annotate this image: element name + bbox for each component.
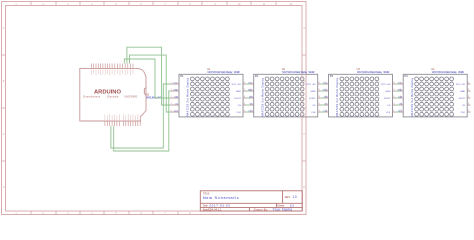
svg-text:C: C — [303, 133, 305, 136]
svg-text:VCC +5V: VCC +5V — [306, 84, 316, 86]
svg-text:CS: CS — [462, 105, 466, 107]
svg-text:CS: CS — [387, 105, 391, 107]
svg-text:Your Name: Your Name — [273, 207, 293, 211]
title block value New Schematic — [203, 195, 239, 200]
svg-text:REV:: REV: — [285, 195, 291, 199]
svg-text:GND: GND — [385, 91, 390, 93]
U2 left pins — [250, 84, 254, 112]
LED matrix module U1 body — [179, 74, 243, 117]
title block label EasyEDA V4.1.1 — [203, 207, 222, 211]
U1 LED dot grid 8x8 — [191, 77, 230, 116]
svg-text:4: 4 — [325, 103, 326, 105]
arduino ARDUINO title text — [94, 89, 121, 95]
svg-text:VCC +5V: VCC +5V — [383, 71, 390, 74]
U2 left pin numbers — [250, 82, 251, 112]
U2 right pin numbers — [319, 82, 321, 112]
svg-text:DOUT: DOUT — [309, 98, 316, 100]
frame row letters left — [3, 27, 5, 189]
U2 left pin name labels — [248, 82, 253, 112]
svg-text:EasyEDA V4.1.1: EasyEDA V4.1.1 — [203, 207, 222, 211]
svg-text:5: 5 — [250, 110, 251, 112]
U3 left pins — [325, 84, 329, 112]
LED matrix module U2 body — [254, 74, 318, 117]
svg-text:VCC +5V: VCC +5V — [456, 84, 466, 86]
frame tick marks right — [302, 55, 306, 161]
svg-text:UNO R3/R2: UNO R3/R2 — [125, 96, 138, 99]
svg-text:CLK: CLK — [174, 110, 179, 112]
title block value 1/1 — [290, 204, 295, 208]
svg-text:MAX7219 Dot Matrix Display: MAX7219 Dot Matrix Display — [432, 71, 458, 74]
svg-text:GND: GND — [460, 91, 465, 93]
svg-text:2: 2 — [325, 89, 326, 91]
U3 vertical name stripe — [336, 77, 339, 116]
U1 corner designator P1 — [180, 74, 184, 78]
svg-text:1: 1 — [250, 82, 251, 84]
svg-text:2017-03-03: 2017-03-03 — [209, 204, 230, 208]
U1 right pins — [243, 84, 246, 112]
U1 right pin name labels — [232, 84, 242, 114]
title block label TITLE — [203, 192, 211, 195]
wire bus from U2 to U3 — [321, 84, 326, 112]
svg-text:CLK: CLK — [311, 112, 316, 114]
wire GND from arduino GND to U1 — [114, 91, 171, 151]
U4 right pin numbers — [468, 82, 470, 112]
U3 left pin name labels — [323, 82, 328, 112]
svg-text:CLK: CLK — [386, 112, 391, 114]
U4 left pin name labels — [397, 82, 402, 112]
title block value 2017-03-03 — [209, 204, 230, 208]
arduino right edge connector notch — [144, 88, 146, 96]
U4 designator label — [431, 67, 435, 71]
LED matrix module U3 body — [329, 74, 393, 117]
arduino designator U5 — [146, 93, 150, 96]
svg-text:Date:: Date: — [203, 205, 209, 208]
svg-text:Duemilanove: Duemilanove — [83, 96, 101, 99]
svg-text:VCC +5V: VCC +5V — [381, 84, 391, 86]
svg-text:4: 4 — [171, 103, 172, 105]
U3 LED dot grid 8x8 — [340, 77, 379, 116]
wire CS from arduino D10 to U1 — [127, 47, 171, 105]
U4 LED dot grid 8x8 — [415, 77, 454, 116]
svg-text:P4: P4 — [404, 74, 408, 78]
svg-text:5: 5 — [171, 110, 172, 112]
U1 left pin name labels — [173, 82, 178, 112]
arduino bottom pin header right (analog pins) — [123, 121, 140, 126]
svg-text:CLK: CLK — [237, 112, 242, 114]
frame right border overlay over module U2 — [302, 74, 306, 118]
arduino bottom pin header left pin name labels — [105, 114, 119, 120]
svg-text:5: 5 — [400, 110, 401, 112]
frame column numbers top — [15, 3, 293, 6]
title block label Drawn By — [254, 207, 269, 211]
svg-text:VCC: VCC — [173, 82, 178, 84]
svg-text:GND: GND — [311, 91, 316, 93]
svg-text:MAX7219 Dot Matrix Display: MAX7219 Dot Matrix Display — [357, 71, 383, 74]
U4 right pin name labels — [456, 84, 466, 114]
svg-text:D: D — [3, 186, 5, 189]
U3 right pin numbers — [393, 82, 395, 112]
U4 part name label — [432, 71, 465, 74]
U4 left pin numbers — [400, 82, 401, 112]
svg-text:DOUT: DOUT — [384, 98, 391, 100]
arduino bottom pin header right pin name labels — [123, 114, 140, 120]
svg-text:1.0: 1.0 — [292, 195, 297, 199]
arduino bottom pin header left (power pins) — [105, 121, 119, 126]
svg-text:2: 2 — [250, 89, 251, 91]
svg-text:VCC +5V: VCC +5V — [308, 71, 315, 74]
svg-text:4: 4 — [400, 103, 401, 105]
svg-text:C: C — [3, 133, 5, 136]
sheet frame inner border — [6, 6, 303, 212]
U3 corner designator P3 — [330, 74, 334, 78]
svg-text:P3: P3 — [330, 74, 334, 78]
frame tick marks top — [31, 2, 276, 6]
svg-text:3: 3 — [325, 96, 326, 98]
U1 left pins — [171, 84, 180, 112]
U4 right pins — [467, 84, 470, 112]
frame tick marks bottom — [31, 211, 178, 215]
U2 vertical name stripe — [261, 77, 264, 116]
U4 left pins — [400, 84, 404, 112]
U4 vertical name stripe — [411, 77, 414, 116]
arduino value label ARDUINO_UNO — [146, 95, 162, 99]
svg-text:1: 1 — [400, 82, 401, 84]
wire CLK from arduino D13 to U1 — [130, 55, 171, 112]
U3 designator label — [357, 67, 361, 71]
svg-text:CS: CS — [175, 103, 179, 105]
svg-text:P2: P2 — [255, 74, 259, 78]
wire DIN from arduino D11 to U1 — [124, 59, 170, 98]
svg-text:3: 3 — [400, 96, 401, 98]
arduino subtitle UNO R3/R2 — [125, 96, 138, 99]
U2 LED dot grid 8x8 — [265, 77, 304, 116]
title block outline — [200, 191, 302, 211]
svg-text:1: 1 — [171, 82, 172, 84]
svg-text:1: 1 — [325, 82, 326, 84]
svg-text:3: 3 — [250, 96, 251, 98]
title block label Sheet — [277, 204, 285, 208]
svg-text:2: 2 — [400, 89, 401, 91]
sheet frame outer border — [2, 2, 307, 215]
LED matrix module U4 body — [403, 74, 467, 117]
wire bus from U1 to U2 — [246, 84, 251, 112]
U2 designator label — [282, 67, 286, 71]
arduino top pin header left (digital pins) — [91, 64, 112, 69]
svg-text:4: 4 — [250, 103, 251, 105]
U3 part name label — [357, 71, 390, 74]
frame tick marks left — [2, 55, 6, 161]
svg-text:DIN: DIN — [174, 96, 178, 98]
svg-text:D: D — [303, 186, 305, 189]
svg-text:MAX7219 Dot Matrix Display: MAX7219 Dot Matrix Display — [208, 71, 234, 74]
svg-text:CS: CS — [238, 105, 242, 107]
svg-text:Drawn By:: Drawn By: — [254, 207, 269, 211]
U3 left pin numbers — [325, 82, 326, 112]
U2 right pin name labels — [306, 84, 316, 114]
U1 right pin numbers — [244, 82, 246, 112]
frame column numbers bottom — [15, 212, 191, 215]
arduino top pin header right pin name labels — [115, 69, 133, 75]
U3 right pins — [393, 84, 396, 112]
svg-text:VCC +5V: VCC +5V — [232, 84, 242, 86]
svg-text:DOUT: DOUT — [459, 98, 466, 100]
wire bus from U3 to U4 — [396, 84, 401, 112]
svg-text:MAX7219 Dot Matrix Display: MAX7219 Dot Matrix Display — [411, 77, 414, 116]
svg-text:P1: P1 — [180, 74, 184, 78]
svg-text:VCC +5V: VCC +5V — [458, 71, 465, 74]
frame row letters right — [303, 27, 305, 189]
svg-text:3: 3 — [171, 96, 172, 98]
svg-text:MAX7219 Dot Matrix Display: MAX7219 Dot Matrix Display — [282, 71, 308, 74]
svg-text:CLK: CLK — [461, 112, 466, 114]
svg-text:New Schematic: New Schematic — [203, 195, 239, 200]
U3 right pin name labels — [381, 84, 391, 114]
U1 designator label — [207, 67, 211, 71]
arduino subtitle Duemilanove — [83, 96, 101, 99]
U2 part name label — [282, 71, 315, 74]
arduino top pin header left pin name labels — [91, 69, 112, 75]
arduino U5 body outline — [80, 68, 146, 121]
U2 right pins — [318, 84, 321, 112]
svg-text:MAX7219 Dot Matrix Display: MAX7219 Dot Matrix Display — [336, 77, 339, 116]
title block value Your Name — [273, 207, 293, 211]
svg-text:GND: GND — [236, 91, 241, 93]
svg-text:DOUT: DOUT — [235, 98, 242, 100]
U1 vertical name stripe — [187, 77, 190, 116]
arduino subtitle Diecimila — [107, 96, 119, 99]
wire VCC from arduino 5V to U1 — [111, 84, 171, 148]
U1 left pin numbers — [171, 82, 172, 112]
title block value 1.0 — [292, 195, 297, 199]
svg-text:ARDUINO: ARDUINO — [94, 89, 121, 95]
U1 part name label — [208, 71, 241, 74]
svg-text:5: 5 — [325, 110, 326, 112]
svg-text:ARDUINO_UNO: ARDUINO_UNO — [146, 95, 162, 99]
svg-text:Diecimila: Diecimila — [107, 96, 119, 99]
arduino top pin header right (digital pins) — [115, 64, 133, 69]
svg-text:CS: CS — [312, 105, 316, 107]
svg-text:2: 2 — [171, 89, 172, 91]
title block label Date — [203, 205, 209, 208]
title block label REV — [285, 195, 291, 199]
svg-text:GND: GND — [173, 89, 178, 91]
svg-text:MAX7219 Dot Matrix Display: MAX7219 Dot Matrix Display — [187, 77, 190, 116]
svg-text:MAX7219 Dot Matrix Display: MAX7219 Dot Matrix Display — [261, 77, 264, 116]
U2 corner designator P2 — [255, 74, 259, 78]
U4 corner designator P4 — [404, 74, 408, 78]
svg-text:VCC +5V: VCC +5V — [234, 71, 241, 74]
